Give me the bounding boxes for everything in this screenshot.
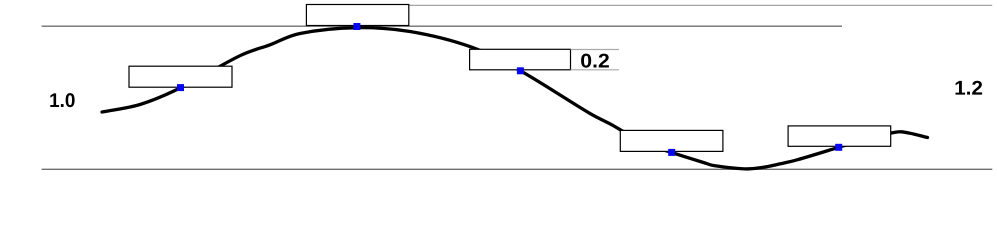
label box 1 [129, 66, 232, 87]
top reference line [42, 25, 842, 27]
bottom reference line [42, 168, 993, 170]
0.2 label bottom rule [571, 69, 620, 71]
label box 3 [470, 49, 571, 70]
box2 top-edge rule [409, 4, 992, 6]
keyframe handle 3 [517, 67, 524, 74]
0.2 label top rule [571, 49, 620, 51]
spline curve [102, 28, 928, 169]
keyframe handle 4 [668, 149, 675, 156]
keyframe handle 1 [177, 84, 184, 91]
keyframe handle 2 [353, 23, 360, 30]
value label 0.2 [581, 54, 609, 68]
keyframe handle 5 [835, 144, 842, 151]
label box 4 [620, 130, 723, 151]
value label 1.2 [956, 81, 983, 95]
value label 1.0 [50, 93, 74, 107]
label box 5 [788, 126, 891, 146]
label box 2 [306, 5, 408, 26]
